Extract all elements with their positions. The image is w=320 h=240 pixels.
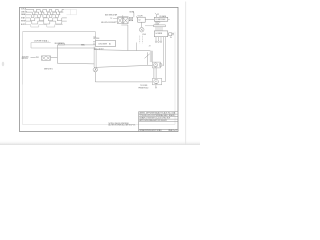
long riser b: [164, 37, 166, 82]
wire W1 to U1: [57, 44, 95, 46]
wire W2 to U1: [31, 47, 57, 49]
resistor R1 box: [169, 33, 172, 36]
wire pair down x93.6 x95.6: [94, 47, 96, 68]
U1 left pins: [93, 42, 96, 45]
svg-text:TO SCOPE: TO SCOPE: [140, 85, 147, 87]
svg-text:U1: U1: [94, 36, 96, 38]
timing waveform row 5: [26, 21, 67, 24]
wire W3 under U1: [94, 50, 151, 51]
inner boundary box top edge: [23, 31, 96, 33]
cap circles: [155, 41, 162, 43]
transistor Q1: [93, 67, 97, 72]
timing waveform row 6 faint: [26, 25, 63, 27]
svg-text:DECODER: DECODER: [99, 43, 108, 45]
wire riser x56.9: [56, 45, 58, 63]
transformer T3: [123, 18, 128, 24]
timing axis tick: [25, 9, 27, 25]
svg-text:ANSEL DIFFUSER ANALYTICALS INC: ANSEL DIFFUSER ANALYTICALS INC USA: [140, 112, 176, 115]
coupler bottom wire: [121, 24, 128, 26]
label above U1: [94, 36, 100, 40]
svg-text:U4 DRVR: U4 DRVR: [156, 33, 163, 35]
meter C2: [154, 79, 159, 84]
timing diagram labels: [21, 8, 27, 26]
svg-text:TR1: TR1: [36, 57, 39, 59]
meter C1: [153, 63, 157, 67]
wire Q1 down: [94, 72, 96, 82]
meter C1 box: [152, 62, 160, 68]
inline component box on W1: [59, 43, 65, 45]
wire W5: [96, 65, 152, 67]
coupler left stubs: [113, 19, 117, 22]
svg-text:P1: P1: [157, 14, 159, 16]
wire W4: [57, 62, 94, 65]
meter C2 box: [152, 78, 161, 84]
wire T1 to riser: [51, 57, 58, 59]
svg-text:PROBE HOLD: PROBE HOLD: [139, 88, 150, 90]
node label input left: [22, 56, 29, 60]
U3 right stub: [168, 18, 170, 20]
cap drop C4: [158, 37, 160, 41]
page fold line: [185, 2, 187, 145]
IC U3: [154, 17, 168, 21]
svg-text:1 3 5 7 9: 1 3 5 7 9: [155, 22, 161, 24]
U4 right stub: [168, 33, 169, 35]
transformer T4: [129, 18, 132, 21]
flag node B: [155, 13, 157, 17]
svg-text:4T: 4T: [149, 46, 151, 48]
coupler note drop: [30, 43, 32, 48]
U3 pin stubs: [156, 20, 164, 23]
svg-text:1N: 1N: [170, 37, 172, 39]
meter C1 right tab: [159, 64, 161, 66]
wire from boundary top to U1: [95, 32, 97, 41]
wire W6 to C2: [95, 81, 152, 83]
flag node A: [132, 11, 134, 17]
inner boundary box right edge: [174, 32, 176, 125]
motor symbol M1: [139, 27, 144, 32]
svg-text:U3 ENCODER: U3 ENCODER: [156, 19, 167, 21]
wire input to T1: [31, 56, 36, 58]
wires J1 to U4: [156, 27, 162, 31]
coupler note marks: [44, 40, 49, 42]
svg-text:LT-09: LT-09: [142, 34, 146, 36]
svg-text:U2: U2: [139, 19, 141, 21]
timing waveform row 4: [26, 18, 67, 21]
transformer T2: [118, 18, 123, 24]
connector box J1: [154, 25, 166, 27]
timing waveform row 2: [26, 12, 63, 15]
svg-text:RT 1553: RT 1553: [94, 38, 100, 40]
flag at U2 left: [136, 15, 137, 18]
riser x136 to W3: [136, 43, 138, 51]
long riser a: [162, 37, 164, 66]
svg-text:8 6 4 2 J2 OUT: 8 6 4 2 J2 OUT: [94, 48, 104, 50]
inner boundary box left edge: [22, 32, 24, 85]
svg-text:SEE NOTE 1: SEE NOTE 1: [44, 68, 53, 70]
cap drop C5: [160, 37, 162, 41]
cap drop C3: [155, 37, 157, 41]
risers above C1: [150, 51, 152, 62]
sheet frame: [20, 7, 179, 131]
timing waveform row 3: [26, 15, 60, 18]
svg-text:ENBL: ENBL: [81, 45, 85, 47]
note text bottom: [109, 123, 136, 127]
wire U2 to U3: [145, 19, 154, 21]
coupler top wire: [118, 16, 129, 18]
IC U4: [154, 31, 168, 37]
wire into J1: [145, 25, 154, 27]
wire C2 right: [162, 81, 166, 83]
svg-text:STAT: STAT: [21, 16, 25, 19]
IC U2: [138, 17, 146, 22]
coupler note underline: [31, 42, 51, 44]
svg-text:MIL-STD-1553 BUS: MIL-STD-1553 BUS: [101, 22, 115, 24]
ground right of R1: [172, 33, 174, 36]
drop below C2: [155, 85, 157, 87]
svg-text:TX: TX: [110, 18, 112, 20]
dashed drop lines under M1: [140, 36, 143, 44]
transformer T1: [42, 56, 51, 60]
timing waveform row 1: [26, 9, 64, 12]
wire C1 right: [162, 64, 164, 66]
wire U2 to M1: [141, 22, 143, 27]
pointer diagonal: [145, 52, 150, 65]
timing faint tail: [64, 9, 77, 14]
inner boundary box bottom edge: [23, 124, 176, 126]
IC U1: [96, 41, 116, 47]
dot below C2: [155, 87, 156, 88]
svg-text:2 4 6 8: 2 4 6 8: [155, 24, 159, 26]
riser from coupler to W3: [127, 25, 129, 51]
title block outline: [139, 112, 178, 132]
risers C1 to C2: [154, 68, 157, 79]
coupler center tap: [122, 15, 124, 17]
svg-text:CMD W: CMD W: [21, 11, 27, 13]
